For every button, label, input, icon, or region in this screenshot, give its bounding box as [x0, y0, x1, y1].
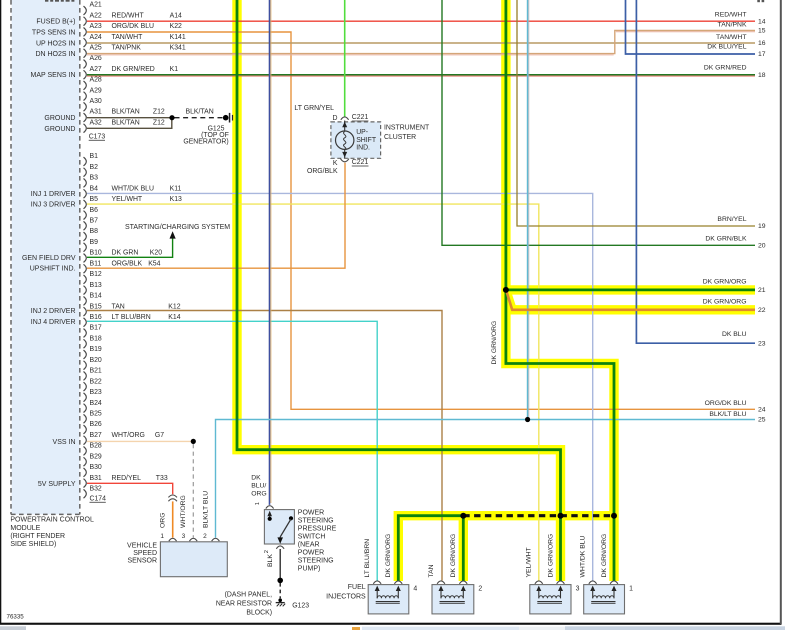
PCM connector B pin B22	[84, 378, 102, 391]
svg-text:DK BLU: DK BLU	[722, 331, 747, 338]
svg-text:K: K	[333, 160, 338, 167]
exit node 18 label DK GRN/RED	[704, 65, 766, 79]
junction at WHT/ORG splice	[191, 439, 196, 444]
PCM connector B pin B13	[84, 282, 102, 295]
svg-text:B18: B18	[90, 335, 102, 342]
PCM connector A pin A32	[84, 119, 165, 132]
svg-text:B3: B3	[90, 175, 99, 182]
svg-text:22: 22	[758, 307, 766, 314]
svg-text:A31: A31	[90, 109, 102, 116]
svg-text:VSS IN: VSS IN	[53, 439, 76, 446]
label INSTRUMENT CLUSTER	[384, 125, 430, 141]
svg-text:WHT/DK BLU: WHT/DK BLU	[580, 535, 587, 577]
svg-text:ORG/BLK: ORG/BLK	[112, 260, 143, 267]
highlighted wire DK GRN/ORG core via x=506 to injector 1	[506, 0, 614, 581]
vehicle speed sensor component box	[160, 542, 227, 577]
exit node 23 label DK BLU	[722, 331, 766, 348]
diagram frame right border	[780, 0, 782, 624]
svg-text:B32: B32	[90, 486, 102, 493]
PSPS pin 2	[264, 546, 284, 553]
PCM connector B pin B29	[84, 453, 102, 466]
PCM connector B pin B15	[84, 303, 181, 316]
svg-text:A21: A21	[90, 2, 102, 9]
svg-text:B22: B22	[90, 378, 102, 385]
exit node 16 label TAN/WHT	[716, 34, 766, 47]
PCM caption	[10, 517, 94, 549]
svg-text:B25: B25	[90, 411, 102, 418]
svg-text:BRN/YEL: BRN/YEL	[717, 216, 746, 223]
fuel injector 2	[432, 581, 474, 614]
svg-text:UPSHIFT IND.: UPSHIFT IND.	[30, 266, 76, 273]
VSS pin 2	[203, 533, 219, 541]
PCM connector B pin B7	[84, 218, 99, 231]
svg-text:B31: B31	[90, 475, 102, 482]
svg-text:FUSED B(+): FUSED B(+)	[36, 19, 75, 26]
svg-text:C221: C221	[352, 114, 369, 121]
svg-text:BLK/TAN: BLK/TAN	[112, 119, 140, 126]
highlighted wire DK GRN/ORG core via x=237 to injector 3	[237, 0, 561, 581]
svg-text:B16: B16	[90, 314, 102, 321]
svg-text:(RIGHT FENDER: (RIGHT FENDER	[10, 533, 65, 540]
wire ORG from inline connector to VSS pin 1	[172, 501, 174, 537]
svg-text:GROUND: GROUND	[44, 115, 75, 122]
exit node 15 label TAN/PNK	[718, 21, 766, 34]
svg-text:MODULE: MODULE	[10, 525, 40, 532]
wire DK GRN from B10 up to starting/charging system arrow	[87, 236, 173, 257]
svg-text:WHT/ORG: WHT/ORG	[180, 495, 187, 528]
fuel injector 4	[368, 581, 409, 614]
svg-text:B5: B5	[90, 196, 99, 203]
powertrain control module U1 (PCM) box	[11, 0, 80, 514]
connector C221 (top)	[352, 114, 369, 121]
svg-text:A22: A22	[90, 12, 102, 19]
highlight band: DK GRN/ORG exit 21	[506, 285, 755, 294]
svg-text:A25: A25	[90, 45, 102, 52]
svg-text:B27: B27	[90, 432, 102, 439]
svg-text:POWER: POWER	[298, 550, 324, 557]
svg-text:BLK/TAN: BLK/TAN	[186, 109, 214, 116]
arrowhead to STARTING/CHARGING SYSTEM	[170, 231, 176, 238]
PCM connector B pin B27	[84, 432, 165, 445]
svg-text:BLK/LT BLU: BLK/LT BLU	[202, 491, 209, 528]
svg-text:DN HO2S IN: DN HO2S IN	[35, 51, 75, 58]
svg-text:ORG/DK BLU: ORG/DK BLU	[705, 400, 747, 407]
svg-text:B11: B11	[90, 260, 102, 267]
svg-text:INJ 4 DRIVER: INJ 4 DRIVER	[31, 319, 76, 326]
svg-text:A14: A14	[170, 12, 182, 19]
PCM connector B pin B9	[84, 239, 99, 252]
PCM connector A pin A31	[84, 109, 165, 122]
svg-text:K20: K20	[150, 250, 162, 257]
PCM connector B pin B25	[84, 411, 102, 424]
svg-text:YEL/WHT: YEL/WHT	[526, 547, 533, 577]
svg-text:D: D	[333, 115, 338, 122]
svg-text:14: 14	[758, 18, 766, 25]
svg-text:B14: B14	[90, 293, 102, 300]
svg-text:DK GRN/BLK: DK GRN/BLK	[705, 236, 747, 243]
svg-text:B13: B13	[90, 282, 102, 289]
PCM connector B pin B32	[84, 486, 102, 499]
highlight band: DK GRN/ORG exit 22	[506, 291, 755, 310]
svg-text:DK GRN/ORG: DK GRN/ORG	[450, 534, 457, 578]
PCM connector B pin B16	[84, 314, 181, 327]
svg-text:25: 25	[758, 417, 766, 424]
svg-text:NEAR RESISTOR: NEAR RESISTOR	[216, 600, 272, 607]
svg-text:TAN/PNK: TAN/PNK	[112, 45, 142, 52]
bottom UI strip segments	[0, 626, 785, 630]
label FUEL INJECTORS	[326, 584, 366, 600]
connector C221 (bottom)	[352, 159, 369, 166]
svg-text:GROUND: GROUND	[44, 126, 75, 133]
svg-text:23: 23	[758, 340, 766, 347]
svg-text:C174: C174	[90, 495, 107, 502]
svg-text:1: 1	[255, 502, 261, 505]
PCM connector A pin A28	[84, 77, 102, 90]
label VEHICLE SPEED SENSOR	[127, 543, 157, 565]
svg-text:DK GRN/ORG: DK GRN/ORG	[703, 279, 747, 286]
svg-text:DK GRN/ORG: DK GRN/ORG	[491, 321, 498, 365]
wire BLK/LT BLU vertical x=527.6 joining VSS return	[527, 0, 529, 420]
PCM connector B pin B17	[84, 325, 102, 338]
wire DK GRN/RED from A27 to exit 18	[87, 74, 755, 76]
junction DK GRN/ORG branch to exits 21/22	[503, 287, 509, 293]
svg-text:A28: A28	[90, 77, 102, 84]
svg-text:K13: K13	[170, 196, 182, 203]
highlight band: injector splice bus y=516	[398, 516, 614, 581]
svg-text:B10: B10	[90, 250, 102, 257]
junction splice bus / injector 3	[558, 513, 564, 519]
svg-text:B24: B24	[90, 400, 102, 407]
wire YEL/WHT from B5 down x=538.8 to injector 3	[87, 204, 539, 580]
wire BLK/LT BLU from VSS pin 2 to exit 25	[216, 420, 756, 538]
connector C174 label	[90, 495, 107, 502]
svg-text:PUMP): PUMP)	[298, 566, 321, 573]
svg-text:Z12: Z12	[153, 109, 165, 116]
svg-text:BLK/TAN: BLK/TAN	[112, 109, 140, 116]
svg-text:A32: A32	[90, 119, 102, 126]
PCM connector A pin A30	[84, 98, 102, 111]
svg-text:DK GRN/ORG: DK GRN/ORG	[547, 534, 554, 578]
svg-text:DK GRN/RED: DK GRN/RED	[112, 66, 155, 73]
highlight band: DK GRN/ORG trace via x=506 to injector 1	[506, 0, 614, 581]
red tracer stripe on DK GRN/RED	[87, 75, 755, 77]
svg-text:B15: B15	[90, 303, 102, 310]
svg-text:ORG: ORG	[160, 513, 167, 528]
svg-text:B23: B23	[90, 389, 102, 396]
svg-text:2: 2	[478, 585, 482, 592]
svg-text:PRESSURE: PRESSURE	[298, 526, 337, 533]
cut-off exit number fragment top right	[757, 0, 764, 2]
wire RED/WHT from A22 to exit 14	[87, 20, 755, 22]
svg-text:STEERING: STEERING	[298, 518, 334, 525]
svg-text:A30: A30	[90, 98, 102, 105]
exit node 24 label ORG/DK BLU	[705, 400, 766, 414]
PCM connector B pin B24	[84, 400, 102, 413]
svg-text:B2: B2	[90, 164, 99, 171]
svg-text:IND.: IND.	[356, 144, 370, 151]
svg-text:LT BLU/BRN: LT BLU/BRN	[364, 539, 371, 578]
svg-text:16: 16	[758, 40, 766, 47]
svg-text:STARTING/CHARGING SYSTEM: STARTING/CHARGING SYSTEM	[125, 224, 230, 231]
PCM connector B pin B3	[84, 175, 99, 188]
svg-text:TAN: TAN	[428, 564, 435, 577]
wire DK GRN/BLK vertical x=442 to exit 20	[442, 0, 755, 245]
PCM connector B pin B10	[84, 250, 163, 263]
PSPS pin 1	[255, 502, 274, 509]
svg-text:24: 24	[758, 407, 766, 414]
svg-text:VEHICLE: VEHICLE	[127, 543, 157, 550]
svg-text:Z12: Z12	[153, 119, 165, 126]
wire TAN/PNK from A25 with jog up at x=615 to exit 15	[87, 31, 755, 54]
exit node 21 label DK GRN/ORG	[703, 279, 766, 295]
PCM connector B pin B23	[84, 389, 102, 402]
svg-text:RED/YEL: RED/YEL	[112, 475, 142, 482]
PCM connector A pin A22	[84, 12, 183, 25]
wire TAN from B15 down x=442 to injector 2	[87, 311, 442, 581]
svg-text:B21: B21	[90, 368, 102, 375]
PCM connector B pin B31	[84, 475, 168, 488]
wire LT BLU/BRN from B16 down x=377.2 to injector 4	[87, 321, 377, 580]
up-shift indicator lamp U2 in instrument cluster	[331, 121, 381, 159]
highlighted wire DK GRN/ORG core injector 4 branch	[398, 516, 463, 581]
svg-text:DK GRN/ORG: DK GRN/ORG	[601, 534, 608, 578]
exit node 25 label BLK/LT BLU	[709, 411, 765, 424]
highlighted wire DK GRN/ORG core injector 2 branch	[462, 516, 465, 581]
svg-text:ORG: ORG	[251, 490, 266, 497]
PCM connector B pin B28	[84, 443, 102, 456]
grey tracer stripe on BLK/LT BLU	[528, 0, 530, 418]
svg-text:18: 18	[758, 72, 766, 79]
svg-text:1: 1	[160, 533, 164, 540]
splice junction A31/A32 ground	[169, 115, 174, 120]
highlighted wire DK GRN/ORG core exit 21	[506, 288, 755, 291]
svg-text:WHT/ORG: WHT/ORG	[112, 432, 145, 439]
junction on BLK wire	[277, 578, 283, 584]
exit node 19 label BRN/YEL	[717, 216, 765, 230]
svg-text:C173: C173	[89, 133, 106, 140]
svg-text:DK GRN: DK GRN	[112, 250, 139, 257]
power steering pressure switch S1	[264, 510, 294, 544]
svg-text:SENSOR: SENSOR	[127, 557, 157, 564]
wire BLK/TAN from A31 to splice	[87, 117, 172, 119]
dashed wire BLK/TAN splice to ground G125	[175, 117, 224, 119]
junction BLK/LT BLU	[525, 417, 530, 422]
svg-text:BLOCK): BLOCK)	[246, 609, 272, 616]
svg-text:B20: B20	[90, 357, 102, 364]
svg-text:POWERTRAIN CONTROL: POWERTRAIN CONTROL	[10, 517, 94, 524]
svg-text:CLUSTER: CLUSTER	[384, 134, 416, 141]
svg-text:C221: C221	[352, 159, 369, 166]
PCM connector B pin B19	[84, 346, 102, 359]
wire DK BLU vertical x=636.4 to exit 23	[636, 0, 755, 343]
svg-text:21: 21	[758, 287, 766, 294]
wire WHT/ORG from B27 to splice dot	[87, 440, 193, 442]
svg-text:5V SUPPLY: 5V SUPPLY	[38, 481, 76, 488]
svg-text:B6: B6	[90, 207, 99, 214]
svg-text:B9: B9	[90, 239, 99, 246]
svg-text:DK GRN/ORG: DK GRN/ORG	[703, 298, 747, 305]
upshift indicator pin D	[333, 115, 349, 122]
svg-text:INJ 2 DRIVER: INJ 2 DRIVER	[31, 308, 76, 315]
dashed wire BLK to ground G123	[279, 583, 281, 598]
svg-text:DK BLU/YEL: DK BLU/YEL	[707, 44, 747, 51]
svg-text:BLU/: BLU/	[251, 483, 266, 490]
PCM connector A pin A26	[84, 55, 102, 68]
PCM connector A pin A27	[84, 66, 179, 79]
svg-text:1: 1	[629, 585, 633, 592]
svg-text:TPS SENS IN: TPS SENS IN	[32, 30, 76, 37]
svg-text:K341: K341	[170, 45, 186, 52]
svg-text:RED/WHT: RED/WHT	[715, 12, 747, 19]
PCM connector B pin B12	[84, 271, 102, 284]
svg-text:2: 2	[203, 533, 207, 540]
svg-text:A27: A27	[90, 66, 102, 73]
svg-text:GEN FIELD DRV: GEN FIELD DRV	[22, 255, 76, 262]
svg-text:INJ 3 DRIVER: INJ 3 DRIVER	[31, 202, 76, 209]
wire TAN/WHT from A24 to exit 16	[87, 42, 755, 44]
svg-text:SIDE SHIELD): SIDE SHIELD)	[10, 541, 56, 548]
cut-off label fragments at top edge	[45, 0, 74, 2]
svg-text:ORG/BLK: ORG/BLK	[307, 168, 338, 175]
svg-text:YEL/WHT: YEL/WHT	[112, 196, 143, 203]
PCM connector A pin A21	[84, 2, 102, 15]
svg-text:GENERATOR): GENERATOR)	[183, 139, 228, 146]
svg-text:3: 3	[576, 585, 580, 592]
svg-text:FUEL: FUEL	[348, 584, 366, 591]
wire ORG/BLK from B11 up x=345 to upshift indicator pin K	[87, 163, 345, 268]
svg-text:(NEAR: (NEAR	[298, 542, 320, 549]
svg-text:POWER: POWER	[298, 510, 324, 517]
ground G123 (dash panel, near resistor block)	[276, 598, 286, 606]
svg-text:20: 20	[758, 243, 766, 250]
PCM connector B pin B4	[84, 185, 182, 198]
svg-text:K12: K12	[168, 303, 180, 310]
PCM connector B pin B14	[84, 293, 102, 306]
svg-text:B17: B17	[90, 325, 102, 332]
PCM connector B pin B30	[84, 464, 102, 477]
highlight band: DK GRN/ORG trace via x=237 to injector 3	[237, 0, 561, 581]
svg-text:RED/WHT: RED/WHT	[112, 12, 145, 19]
svg-text:SWITCH: SWITCH	[298, 534, 326, 541]
svg-text:A29: A29	[90, 87, 102, 94]
PCM connector A pin A29	[84, 87, 102, 100]
dashed wire WHT/ORG splice down to VSS pin 3	[192, 444, 194, 538]
wire ORG/DK BLU from A23 down x=291 to exit 24	[87, 32, 755, 409]
svg-text:K11: K11	[170, 185, 182, 192]
PCM pin function labels	[22, 19, 76, 488]
svg-text:G123: G123	[292, 602, 309, 609]
svg-text:K14: K14	[168, 314, 180, 321]
svg-text:TAN: TAN	[112, 303, 125, 310]
fuel injector 1	[584, 581, 625, 614]
svg-text:B26: B26	[90, 421, 102, 428]
svg-text:B12: B12	[90, 271, 102, 278]
label POWER STEERING PRESSURE SWITCH (NEAR POWER STEERING PUMP)	[298, 510, 337, 573]
svg-text:SHIFT: SHIFT	[356, 137, 377, 144]
svg-text:B4: B4	[90, 185, 99, 192]
svg-text:B19: B19	[90, 346, 102, 353]
svg-text:K22: K22	[170, 23, 182, 30]
PCM connector A pin A24	[84, 34, 186, 47]
PCM connector B pin B20	[84, 357, 102, 370]
upshift indicator pin K	[333, 159, 349, 167]
svg-text:T33: T33	[156, 475, 168, 482]
fuel injector 3	[530, 581, 571, 614]
wire BLK from PSPS pin 2 to splice	[279, 549, 281, 579]
PCM connector B pin B6	[84, 207, 99, 220]
svg-text:G7: G7	[155, 432, 164, 439]
exit node 14 label RED/WHT	[715, 12, 766, 26]
svg-text:A23: A23	[90, 23, 102, 30]
wire BLK/TAN from A32 joining A31 splice	[87, 118, 172, 129]
svg-text:A26: A26	[90, 55, 102, 62]
PCM connector B pin B1	[84, 153, 99, 166]
inline connector on speed sensor feed	[168, 495, 177, 497]
svg-text:B30: B30	[90, 464, 102, 471]
svg-text:UP-: UP-	[356, 129, 368, 136]
svg-text:MAP SENS IN: MAP SENS IN	[31, 72, 76, 79]
orange tracer stripe on DK BLU/ORG	[270, 0, 272, 503]
svg-text:ORG/DK BLU: ORG/DK BLU	[112, 23, 155, 30]
svg-text:DK GRN/ORG: DK GRN/ORG	[385, 534, 392, 578]
svg-text:DK GRN/RED: DK GRN/RED	[704, 65, 747, 72]
svg-text:BLK: BLK	[267, 554, 274, 567]
diagram frame bottom border	[0, 623, 782, 625]
svg-text:17: 17	[758, 51, 766, 58]
label DK BLU/ORG	[251, 475, 266, 498]
PCM connector A pin A25	[84, 45, 186, 58]
svg-text:BLK/LT BLU: BLK/LT BLU	[709, 411, 746, 418]
PCM connector B pin B18	[84, 335, 102, 348]
junction splice bus / injector 1	[611, 513, 617, 519]
svg-text:TAN/WHT: TAN/WHT	[716, 34, 746, 41]
svg-text:INJECTORS: INJECTORS	[326, 593, 366, 600]
svg-text:WHT/DK BLU: WHT/DK BLU	[112, 185, 155, 192]
svg-text:3: 3	[182, 533, 186, 540]
pink tracer stripe on TAN/PNK	[87, 54, 614, 56]
svg-text:DK: DK	[251, 475, 261, 482]
exit node 22 label DK GRN/ORG	[703, 298, 766, 314]
PCM connector B pin B11	[84, 260, 161, 273]
label (DASH PANEL, NEAR RESISTOR BLOCK)	[216, 591, 272, 616]
svg-text:LT GRN/YEL: LT GRN/YEL	[294, 105, 334, 112]
svg-text:B7: B7	[90, 218, 99, 225]
svg-text:INJ 1 DRIVER: INJ 1 DRIVER	[31, 191, 76, 198]
svg-text:76335: 76335	[7, 614, 25, 621]
wire DK BLU/YEL vertical x=625.5 to exit 17	[626, 0, 756, 54]
highlight band: branch to injector 2	[459, 516, 468, 581]
PCM connector B pin B21	[84, 368, 102, 381]
svg-text:K54: K54	[148, 260, 160, 267]
diagram frame left border	[0, 0, 1, 624]
PCM connector B pin B2	[84, 164, 99, 177]
svg-text:15: 15	[758, 28, 766, 35]
svg-text:TAN/PNK: TAN/PNK	[718, 21, 747, 28]
svg-text:B8: B8	[90, 228, 99, 235]
svg-text:B1: B1	[90, 153, 99, 160]
svg-text:TAN/WHT: TAN/WHT	[112, 34, 144, 41]
svg-text:19: 19	[758, 223, 766, 230]
svg-text:LT BLU/BRN: LT BLU/BRN	[112, 314, 151, 321]
wire LT GRN/YEL vertical x=344.7 to upshift indicator pin D	[344, 0, 346, 117]
svg-text:B28: B28	[90, 443, 102, 450]
svg-text:K1: K1	[170, 66, 179, 73]
exit node 17 label DK BLU/YEL	[707, 44, 766, 59]
PCM connector A pin A23	[84, 23, 183, 36]
svg-text:(DASH PANEL,: (DASH PANEL,	[225, 591, 272, 598]
junction splice bus / injector 2	[460, 513, 466, 519]
svg-text:K141: K141	[170, 34, 186, 41]
